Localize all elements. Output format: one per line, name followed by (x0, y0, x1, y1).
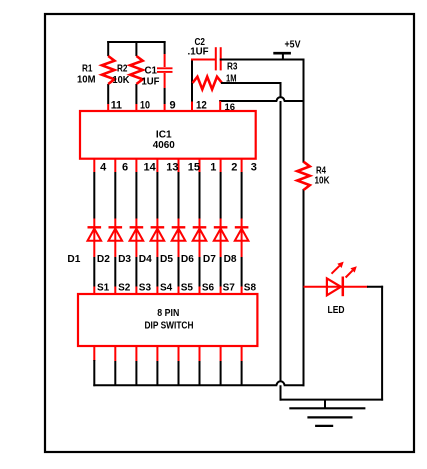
wire column pin 4 (93, 159, 95, 295)
svg-text:DIP SWITCH: DIP SWITCH (145, 320, 194, 331)
svg-text:D1: D1 (67, 254, 80, 265)
wire column pin 15 (178, 159, 180, 295)
wire: pin 10 branch (135, 41, 137, 112)
svg-text:14: 14 (144, 162, 157, 174)
wire: LED cathode to down wire (368, 286, 382, 288)
wire column pin 3 (241, 159, 243, 295)
svg-text:1UF: 1UF (142, 77, 160, 88)
diode D3 (130, 227, 144, 241)
diode D5 (172, 227, 186, 241)
svg-text:10K: 10K (113, 75, 131, 86)
svg-text:S8: S8 (244, 283, 257, 294)
svg-text:S3: S3 (139, 283, 152, 294)
diode D4 (151, 227, 165, 241)
wire: top bus joining R1 R2 C1 (108, 41, 164, 43)
resistor R4 (297, 162, 310, 190)
IC U1 box (80, 111, 256, 159)
resistor R1 (102, 56, 115, 84)
capacitor C1 (157, 68, 173, 72)
diode D7 (214, 227, 228, 241)
svg-text:3: 3 (251, 162, 257, 174)
power +5V symbol (273, 53, 291, 59)
svg-text:D8: D8 (224, 254, 237, 265)
resistor R3 (193, 77, 223, 90)
diode D1 (88, 227, 102, 241)
wire: right return down (381, 287, 383, 400)
svg-text:11: 11 (111, 100, 122, 112)
svg-text:9: 9 (170, 100, 176, 112)
wire: common bus with hop (94, 381, 303, 385)
svg-text:10M: 10M (77, 74, 96, 85)
svg-text:R1: R1 (82, 63, 93, 74)
wire: +5V vertical rail x=303.5 (303, 60, 305, 386)
wire column pin 2 (220, 159, 222, 295)
svg-text:S7: S7 (223, 283, 236, 294)
svg-text:C1: C1 (145, 65, 158, 76)
svg-text:6: 6 (122, 162, 128, 174)
svg-text:S4: S4 (160, 283, 173, 294)
svg-text:1: 1 (210, 162, 216, 174)
svg-text:S5: S5 (181, 283, 194, 294)
svg-text:13: 13 (166, 162, 178, 174)
DIP bottom pin wires (94, 346, 241, 385)
svg-text:10K: 10K (315, 176, 331, 187)
svg-text:S6: S6 (202, 283, 215, 294)
svg-text:4060: 4060 (153, 140, 175, 151)
svg-text:IC1: IC1 (156, 130, 172, 141)
diode D2 (109, 227, 123, 241)
svg-text:8 PIN: 8 PIN (157, 308, 179, 319)
svg-text:2: 2 (231, 162, 237, 174)
svg-text:D5: D5 (160, 254, 173, 265)
wire: pin 11 branch (107, 41, 109, 112)
resistor R2 (130, 56, 143, 84)
svg-text:R2: R2 (117, 63, 128, 74)
svg-text:12: 12 (196, 100, 207, 112)
diode D8 (235, 227, 249, 241)
svg-text:1M: 1M (226, 74, 237, 85)
wire: R3 right lead to vertical (222, 82, 281, 84)
LED D9 (304, 262, 369, 297)
svg-text:S1: S1 (97, 283, 110, 294)
wire: pin 9 branch (164, 41, 166, 112)
wire: bottom rail to ground (281, 399, 383, 401)
wire: pin 16 net with hop (220, 97, 303, 111)
diode D6 (193, 227, 207, 241)
svg-text:D6: D6 (181, 254, 194, 265)
svg-text:4: 4 (100, 162, 107, 174)
wire: pin 12 vertical (191, 60, 193, 112)
DIP switch box (78, 294, 257, 346)
capacitor C2 (216, 47, 221, 70)
wire column pin 1 (199, 159, 201, 295)
svg-text:S2: S2 (118, 283, 131, 294)
svg-text:D3: D3 (118, 254, 131, 265)
svg-text:D4: D4 (139, 254, 152, 265)
ground (289, 400, 365, 426)
svg-text:LED: LED (328, 305, 345, 316)
svg-text:.1UF: .1UF (188, 47, 209, 58)
wire: vertical R3 to ground rail (280, 83, 282, 400)
svg-text:15: 15 (188, 162, 200, 174)
svg-text:D2: D2 (97, 254, 110, 265)
svg-text:+5V: +5V (285, 39, 301, 51)
wire column pin 6 (114, 159, 116, 295)
svg-text:10: 10 (140, 100, 150, 112)
wire: +5V rail from C2 to right corner (221, 59, 304, 61)
svg-text:D7: D7 (203, 254, 216, 265)
wire column pin 13 (156, 159, 158, 295)
wire column pin 14 (135, 159, 137, 295)
svg-text:R3: R3 (227, 62, 238, 73)
wire: C2 left lead (191, 59, 216, 61)
